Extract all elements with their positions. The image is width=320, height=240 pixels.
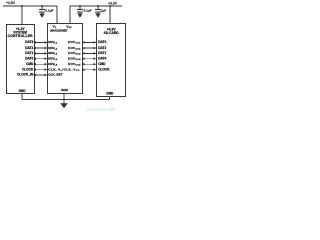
svg-text:0.1µF: 0.1µF <box>84 9 92 13</box>
svg-text:DAT1: DAT1 <box>98 51 106 55</box>
svg-text:CMD: CMD <box>26 62 34 66</box>
svg-text:I/OVL3: I/OVL3 <box>48 51 58 56</box>
svg-text:CLOCK_IN: CLOCK_IN <box>17 73 34 77</box>
svg-text:+1.8V: +1.8V <box>6 1 16 5</box>
svg-text:CLOCK: CLOCK <box>22 67 34 71</box>
svg-text:I/OVCC4: I/OVCC4 <box>68 56 81 61</box>
svg-text:1µF: 1µF <box>101 9 107 13</box>
svg-text:CLK_VL/CLK_VCC: CLK_VL/CLK_VCC <box>48 67 80 72</box>
svg-text:+3.3V: +3.3V <box>108 1 118 5</box>
svg-text:DAT1: DAT1 <box>25 51 33 55</box>
svg-text:DAT0: DAT0 <box>98 56 106 60</box>
svg-text:CLOCK: CLOCK <box>98 67 110 71</box>
svg-text:I/OVL1: I/OVL1 <box>48 40 58 45</box>
svg-text:I/OVCC5: I/OVCC5 <box>68 62 81 67</box>
svg-text:DAT3: DAT3 <box>25 40 33 44</box>
svg-text:GND: GND <box>106 92 114 96</box>
svg-text:I/OVCC1: I/OVCC1 <box>68 40 81 45</box>
svg-text:I/OVL4: I/OVL4 <box>48 56 58 61</box>
svg-text:I/OVL2: I/OVL2 <box>48 46 58 51</box>
svg-text:DAT0: DAT0 <box>25 56 33 60</box>
svg-text:VCC: VCC <box>66 25 72 30</box>
svg-text:MAX13035E: MAX13035E <box>50 28 68 32</box>
svg-text:CMD: CMD <box>98 62 106 66</box>
svg-text:DAT2: DAT2 <box>98 46 106 50</box>
svg-text:SD CARD: SD CARD <box>104 31 120 35</box>
svg-text:GND: GND <box>18 89 26 93</box>
svg-text:I/OVCC3: I/OVCC3 <box>68 51 81 56</box>
svg-text:19-4376; Rev 1; 5/09: 19-4376; Rev 1; 5/09 <box>87 108 115 112</box>
svg-text:CLK_RET: CLK_RET <box>48 73 62 77</box>
svg-text:I/OVCC2: I/OVCC2 <box>68 46 81 51</box>
svg-text:GND: GND <box>61 88 69 92</box>
svg-text:CONTROLLER: CONTROLLER <box>8 34 33 38</box>
svg-text:DAT2: DAT2 <box>25 46 33 50</box>
svg-text:0.1µF: 0.1µF <box>45 9 53 13</box>
svg-text:I/OVL5: I/OVL5 <box>48 62 58 67</box>
svg-text:DAT3: DAT3 <box>98 40 106 44</box>
